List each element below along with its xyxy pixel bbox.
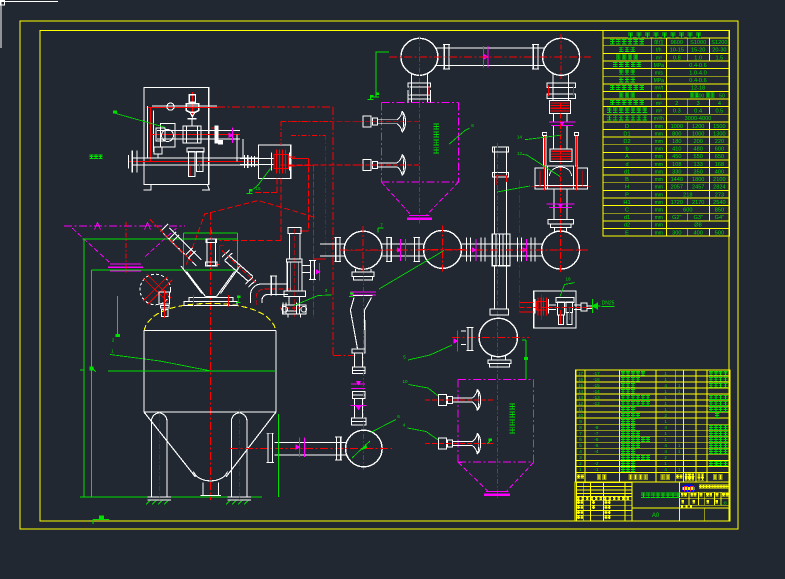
svg-text:14: 14 xyxy=(517,135,523,140)
svg-text:mm: mm xyxy=(655,124,663,130)
svg-text:650: 650 xyxy=(715,154,724,160)
svg-text:5: 5 xyxy=(579,443,582,448)
right angled pipe xyxy=(225,261,249,282)
green foot hatches xyxy=(146,501,150,505)
company logo xyxy=(681,484,696,492)
svg-text:3: 3 xyxy=(579,455,582,460)
green leaders 14 12 xyxy=(525,135,562,140)
flow arrow magenta after flange xyxy=(232,128,234,144)
magenta arrow at tee xyxy=(319,263,321,281)
svg-text:1: 1 xyxy=(664,401,667,406)
svg-text:H1: H1 xyxy=(623,200,630,206)
vessel left leg xyxy=(152,413,167,497)
feed hopper flow line magenta xyxy=(64,225,185,227)
svg-text:2: 2 xyxy=(112,338,115,343)
svg-text:1: 1 xyxy=(664,419,667,424)
svg-text:220: 220 xyxy=(715,139,724,145)
panel leg left xyxy=(144,185,151,190)
svg-text:180: 180 xyxy=(672,139,681,145)
box2 pipe and fittings xyxy=(549,304,556,306)
svg-text:1: 1 xyxy=(664,389,667,394)
svg-text:mm: mm xyxy=(655,169,663,175)
svg-text:mm: mm xyxy=(655,177,663,183)
dome inlet valve dashed circle xyxy=(140,274,171,305)
FRL unit on panel xyxy=(189,152,196,177)
red dashdot vertical main xyxy=(332,107,334,356)
svg-text:-8: -8 xyxy=(594,425,599,430)
vent stack lower flange xyxy=(284,291,305,297)
svg-text:2: 2 xyxy=(675,101,678,107)
svg-text:3000-4000: 3000-4000 xyxy=(685,116,712,122)
svg-text:1: 1 xyxy=(579,467,582,472)
svg-text:1: 1 xyxy=(111,349,114,354)
bin1 outline dashed magenta xyxy=(381,101,458,103)
svg-text:600: 600 xyxy=(715,147,724,153)
bin1 outlet flange xyxy=(409,215,429,217)
svg-text:5: 5 xyxy=(403,355,406,360)
bin1 nozzle upper xyxy=(363,116,371,127)
svg-text:500: 500 xyxy=(715,230,724,236)
green vertical dim line right of chain xyxy=(277,414,279,497)
relief valve on panel top xyxy=(191,92,193,117)
vessel outlet xyxy=(202,483,204,496)
svg-text:t/h: t/h xyxy=(656,48,662,54)
green leaders to bin2 nozzles xyxy=(409,385,439,397)
svg-text:13: 13 xyxy=(578,395,584,400)
reducer cone xyxy=(350,298,371,349)
sphere A bottom neck xyxy=(355,269,357,272)
reducer lower flanges xyxy=(352,349,365,353)
box2 solenoid valve xyxy=(537,298,539,316)
svg-text:7: 7 xyxy=(380,223,383,228)
vessel cone xyxy=(144,412,196,477)
pressure regulator on panel xyxy=(156,128,165,141)
svg-text:8: 8 xyxy=(579,425,582,430)
globe valve xyxy=(183,126,201,143)
svg-text:1200: 1200 xyxy=(692,124,704,130)
svg-text:-7: -7 xyxy=(594,431,599,436)
svg-text:550: 550 xyxy=(694,154,703,160)
green dimension horizontals xyxy=(83,238,239,240)
green leader 15 xyxy=(254,169,271,190)
svg-text:1: 1 xyxy=(664,431,667,436)
neck below top-right sphere xyxy=(552,74,554,101)
svg-text:m/s: m/s xyxy=(655,71,664,77)
green dimension vertical lines left xyxy=(83,239,85,497)
green tick near bin1 top xyxy=(368,99,374,101)
pipe below dome valve xyxy=(553,189,555,220)
pipe sphere B to C xyxy=(461,243,542,245)
bottom sphere left pipe xyxy=(275,441,346,443)
svg-text:800: 800 xyxy=(672,131,681,137)
svg-text:4: 4 xyxy=(718,101,721,107)
svg-text:1440: 1440 xyxy=(671,177,683,183)
svg-text:8: 8 xyxy=(471,123,474,128)
svg-text:410: 410 xyxy=(672,147,681,153)
svg-text:12-18: 12-18 xyxy=(691,86,705,92)
flanges between B and C xyxy=(465,237,467,261)
svg-text:2457: 2457 xyxy=(692,185,704,191)
S7 bottom neck xyxy=(491,356,493,361)
svg-text:18: 18 xyxy=(565,277,571,282)
green leader 6 xyxy=(352,441,370,458)
svg-text:m³: m³ xyxy=(656,55,662,61)
svg-text:2170: 2170 xyxy=(692,200,704,206)
svg-text:-6: -6 xyxy=(594,437,599,442)
expansion joint 2 xyxy=(550,149,572,162)
svg-text:-17: -17 xyxy=(593,371,600,376)
svg-text:A: A xyxy=(625,154,629,160)
svg-text:1000: 1000 xyxy=(692,131,704,137)
svg-text:4: 4 xyxy=(664,467,667,472)
central inlet pipe xyxy=(207,239,216,266)
green leader 13 11 xyxy=(497,186,530,192)
green leader 3 xyxy=(294,295,332,306)
svg-text:1: 1 xyxy=(664,395,667,400)
svg-text:480: 480 xyxy=(694,147,703,153)
svg-text:200: 200 xyxy=(694,139,703,145)
svg-text:m: m xyxy=(657,93,661,99)
svg-text:12: 12 xyxy=(517,151,523,156)
red diagonal equalizer line xyxy=(186,201,316,265)
red dashdot from box top right xyxy=(291,134,326,136)
technical data table xyxy=(603,31,730,237)
svg-text:-2: -2 xyxy=(594,461,599,466)
bin2 green vertical chars xyxy=(510,404,515,409)
red vertical control lines xyxy=(308,158,310,231)
top sphere right xyxy=(543,38,580,75)
drawing title text xyxy=(641,493,646,497)
union fittings into box xyxy=(240,157,274,159)
red branch from box top to main line xyxy=(281,121,333,123)
svg-text:G3": G3" xyxy=(693,215,702,221)
svg-text:D2: D2 xyxy=(623,139,630,145)
panel upper pipe xyxy=(152,105,217,107)
magenta marks between A and B xyxy=(400,239,402,261)
neck below top-left sphere xyxy=(411,74,413,102)
right info grid xyxy=(680,491,730,493)
red hook at S7 pipe xyxy=(496,174,506,176)
svg-text:4: 4 xyxy=(664,449,667,454)
svg-text:DN25: DN25 xyxy=(602,301,615,307)
green dim box over vessel top xyxy=(184,232,238,234)
bottom sphere xyxy=(346,430,383,467)
paper edge marks top-left xyxy=(0,1,58,3)
svg-text:mm: mm xyxy=(655,208,663,214)
svg-text:6: 6 xyxy=(579,437,582,442)
pipe below gate valve to S7 xyxy=(494,266,496,309)
feed hopper cone dashed xyxy=(72,228,111,264)
sphere S7 xyxy=(479,318,517,356)
svg-text:mm: mm xyxy=(655,154,663,160)
svg-text:MPa: MPa xyxy=(654,63,665,69)
red feed lines to nozzles xyxy=(281,121,363,123)
svg-text:1: 1 xyxy=(664,407,667,412)
green leader 7 mid xyxy=(379,251,444,290)
bin2 cone xyxy=(458,462,488,491)
green arrow DN25 xyxy=(592,299,594,313)
left pipe flanges xyxy=(335,437,337,460)
svg-text:d1: d1 xyxy=(624,169,630,175)
feed hopper outlet flange xyxy=(110,263,141,265)
solenoid valve box xyxy=(258,145,290,178)
inner border frame xyxy=(40,31,729,522)
top pipe between spheres xyxy=(437,47,544,49)
dome valve actuator block xyxy=(159,292,169,304)
red verticals below box xyxy=(276,178,278,192)
svg-text:mm: mm xyxy=(655,200,663,206)
svg-text:1: 1 xyxy=(664,371,667,376)
svg-text:2100: 2100 xyxy=(713,177,725,183)
svg-text:1720: 1720 xyxy=(671,200,683,206)
svg-text:2: 2 xyxy=(664,413,667,418)
svg-text:mm: mm xyxy=(655,147,663,153)
svg-text:850: 850 xyxy=(715,208,724,214)
stack right tee xyxy=(302,265,310,267)
elbow down to solenoid box xyxy=(236,135,238,162)
svg-text:2: 2 xyxy=(579,461,582,466)
svg-text:2824: 2824 xyxy=(713,185,725,191)
vessel vent elbow xyxy=(251,284,289,303)
vent stack valve body xyxy=(287,259,303,262)
red dashdot line from panel to right xyxy=(217,106,333,108)
svg-text:273: 273 xyxy=(715,192,724,198)
svg-text:400: 400 xyxy=(696,93,705,99)
svg-text:4: 4 xyxy=(664,443,667,448)
svg-text:20-30: 20-30 xyxy=(712,48,726,54)
svg-text:mm: mm xyxy=(655,215,663,221)
green leader 18 xyxy=(560,283,575,297)
svg-text:mm: mm xyxy=(655,192,663,198)
dome right nozzle xyxy=(282,303,284,314)
control panel frame xyxy=(144,88,209,185)
bin1 pipe from top sphere xyxy=(407,90,409,102)
green tick near reducer top xyxy=(349,296,354,298)
svg-text:16: 16 xyxy=(578,377,584,382)
svg-text:350: 350 xyxy=(694,169,703,175)
svg-text:1.5: 1.5 xyxy=(716,55,724,61)
svg-text:4: 4 xyxy=(403,423,406,428)
svg-text:1: 1 xyxy=(664,377,667,382)
svg-text:d: d xyxy=(625,162,628,168)
svg-text:A0: A0 xyxy=(652,513,660,519)
company name yellow xyxy=(699,485,702,488)
bin1 green vertical chars xyxy=(434,124,439,129)
sphere C top flange xyxy=(548,220,574,225)
svg-text:0.4: 0.4 xyxy=(694,109,702,115)
red line into top inlet pipe xyxy=(220,240,281,242)
svg-text:6: 6 xyxy=(397,414,400,419)
bin2 nozzle lower xyxy=(438,438,446,449)
svg-text:300: 300 xyxy=(672,230,681,236)
magenta marks on top pipe xyxy=(482,46,484,68)
svg-text:1: 1 xyxy=(664,437,667,442)
svg-text:1:8: 1:8 xyxy=(720,500,727,506)
svg-text:1500: 1500 xyxy=(713,124,725,130)
panel riser pipe elbow xyxy=(147,106,149,158)
svg-text:-1: -1 xyxy=(594,467,599,472)
left hose connector xyxy=(131,151,133,173)
vessel right leg xyxy=(232,413,247,497)
svg-text:单位: 单位 xyxy=(654,39,664,46)
svg-text:-12: -12 xyxy=(593,401,600,406)
svg-text:m³: m³ xyxy=(656,101,662,107)
magenta marks mid chain xyxy=(351,383,365,385)
red control lines from box right xyxy=(291,157,309,159)
red lines into box2 xyxy=(520,301,534,303)
svg-text:mm: mm xyxy=(655,223,663,229)
svg-text:10: 10 xyxy=(578,413,584,418)
gate valve on pipe BC xyxy=(492,234,510,266)
inlet funnel on vessel xyxy=(187,272,206,297)
svg-text:3: 3 xyxy=(697,101,700,107)
svg-text:4: 4 xyxy=(664,383,667,388)
vessel shell xyxy=(143,331,145,413)
svg-text:Ø8: Ø8 xyxy=(694,223,701,229)
svg-text:1.0-4.0: 1.0-4.0 xyxy=(689,71,706,77)
vessel centerline xyxy=(209,212,211,500)
vessel dome yellow dashed xyxy=(144,304,276,332)
svg-text:17: 17 xyxy=(578,371,584,376)
svg-text:15-20: 15-20 xyxy=(691,48,705,54)
svg-text:-4: -4 xyxy=(594,449,599,454)
svg-text:1300: 1300 xyxy=(713,131,725,137)
svg-text:400: 400 xyxy=(715,169,724,175)
middle row red centerline xyxy=(340,249,590,251)
pipe stack tee to sphere A xyxy=(320,243,345,245)
green label left of panel xyxy=(90,155,94,159)
vessel green level line xyxy=(108,370,276,372)
chain lower flanges xyxy=(353,392,365,396)
svg-text:50: 50 xyxy=(719,93,725,99)
vertical pipe above S7 xyxy=(494,147,496,234)
green leader 2 xyxy=(117,296,119,337)
svg-text:450: 450 xyxy=(672,154,681,160)
magenta mark below dome valve xyxy=(547,203,575,205)
svg-text:H: H xyxy=(625,185,629,191)
magenta mark below A xyxy=(351,291,376,293)
svg-text:D: D xyxy=(625,124,629,130)
svg-text:MPa: MPa xyxy=(654,78,665,84)
vent stack upper pipe xyxy=(288,233,290,258)
svg-text:4: 4 xyxy=(579,449,582,454)
svg-text:14: 14 xyxy=(578,389,584,394)
svg-text:mm: mm xyxy=(655,185,663,191)
svg-text:G4": G4" xyxy=(715,215,724,221)
svg-text:218: 218 xyxy=(683,192,692,198)
svg-text:108: 108 xyxy=(672,162,681,168)
panel leg right xyxy=(202,185,209,190)
bin1 green leader xyxy=(449,128,470,144)
box2 FRL unit xyxy=(558,302,565,315)
flange right of panel xyxy=(215,126,219,144)
sphere pump B xyxy=(424,230,462,268)
svg-text:G2": G2" xyxy=(672,215,681,221)
svg-text:1.0: 1.0 xyxy=(694,55,702,61)
svg-text:0.4-0.6: 0.4-0.6 xyxy=(689,63,706,69)
svg-text:2540: 2540 xyxy=(713,200,725,206)
svg-text:0.5: 0.5 xyxy=(716,109,724,115)
bin1 nozzle lower xyxy=(363,159,371,170)
svg-text:-14: -14 xyxy=(593,389,600,394)
svg-text:7: 7 xyxy=(579,431,582,436)
svg-text:1000: 1000 xyxy=(671,124,683,130)
magenta mark on column xyxy=(549,121,575,123)
FRL box right xyxy=(534,291,576,328)
svg-text:12: 12 xyxy=(578,401,584,406)
svg-text:400: 400 xyxy=(694,230,703,236)
svg-text:m³: m³ xyxy=(656,109,662,115)
svg-text:15: 15 xyxy=(255,186,261,191)
svg-text:D1: D1 xyxy=(623,131,630,137)
parts list table xyxy=(576,370,730,482)
svg-text:m³/t: m³/t xyxy=(654,86,663,92)
svg-text:B: B xyxy=(625,177,629,183)
vent elbow flange xyxy=(270,276,272,296)
green tick near funnel flange xyxy=(236,302,241,304)
pipe sphere A to B xyxy=(382,243,424,245)
svg-text:b: b xyxy=(625,147,628,153)
green line top left xyxy=(376,52,389,93)
sphere pump C xyxy=(542,231,580,269)
svg-text:-15: -15 xyxy=(593,383,600,388)
svg-text:mm: mm xyxy=(655,230,663,236)
svg-text:2: 2 xyxy=(664,455,667,460)
svg-text:168: 168 xyxy=(715,162,724,168)
svg-text:d2: d2 xyxy=(624,223,630,229)
pipe mid column xyxy=(553,126,555,149)
pipe below joint1 xyxy=(553,113,555,121)
top pipe flanges xyxy=(443,45,445,70)
svg-text:S1200: S1200 xyxy=(711,40,727,46)
expansion joint 1 xyxy=(550,101,571,114)
flanges between A and B xyxy=(386,237,388,261)
svg-text:mm: mm xyxy=(655,162,663,168)
svg-text:11: 11 xyxy=(578,407,583,412)
top red centerline xyxy=(389,56,591,58)
svg-text:0.8: 0.8 xyxy=(673,55,681,61)
svg-text:10: 10 xyxy=(402,379,408,384)
svg-text:600: 600 xyxy=(683,208,692,214)
svg-text:S1000: S1000 xyxy=(690,40,706,46)
svg-text:4: 4 xyxy=(664,425,667,430)
svg-text:mm: mm xyxy=(655,139,663,145)
bin2 outlet flange xyxy=(486,490,509,492)
bin2 nozzle upper xyxy=(438,394,446,405)
svg-text:2057: 2057 xyxy=(671,185,683,191)
svg-text:m³/h: m³/h xyxy=(654,116,664,122)
svg-text:C: C xyxy=(625,208,629,214)
svg-text:3: 3 xyxy=(325,288,328,293)
svg-text:330: 330 xyxy=(672,169,681,175)
funnel base flanges xyxy=(189,298,233,302)
svg-text:1: 1 xyxy=(664,461,667,466)
butterfly valve xyxy=(282,305,306,314)
svg-text:15: 15 xyxy=(578,383,584,388)
green leader to panel valve xyxy=(116,113,166,127)
svg-text:-13: -13 xyxy=(593,395,600,400)
svg-text:P: P xyxy=(625,192,629,198)
svg-text:0.4-0.6: 0.4-0.6 xyxy=(689,78,706,84)
top sphere left xyxy=(401,38,438,75)
svg-text:-5: -5 xyxy=(594,443,599,448)
S7 left nozzle xyxy=(467,328,469,351)
svg-text:10-15: 10-15 xyxy=(670,48,684,54)
svg-text:9: 9 xyxy=(579,419,582,424)
svg-text:9600: 9600 xyxy=(671,40,683,46)
left angled inlet pipe xyxy=(164,234,197,267)
svg-text:d1: d1 xyxy=(624,215,630,221)
